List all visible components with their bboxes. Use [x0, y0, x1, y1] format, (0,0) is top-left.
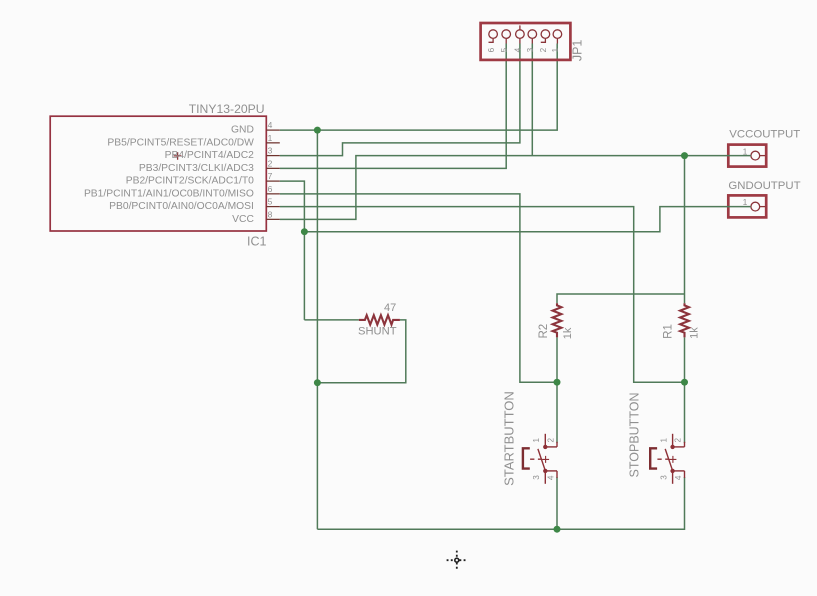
svg-text:5: 5 [500, 47, 509, 52]
svg-text:STOPBUTTON: STOPBUTTON [628, 393, 642, 478]
svg-text:GND: GND [231, 125, 254, 136]
junction shunt return on GND [314, 379, 321, 386]
connector VCCOUTPUT box [728, 145, 766, 167]
svg-text:SHUNT: SHUNT [358, 325, 397, 337]
svg-text:47: 47 [384, 302, 396, 314]
wire PB3 net: IC pin2 to JP1 pin5 [280, 44, 506, 169]
STOPBUTTON actuator [650, 448, 657, 468]
svg-text:R2: R2 [538, 324, 550, 339]
JP1 pin number labels [487, 47, 560, 52]
svg-text:4: 4 [674, 475, 683, 480]
wire PB1 net: IC pin6 to R2 bottom [280, 194, 557, 382]
svg-text:8: 8 [268, 209, 273, 219]
svg-text:IC1: IC1 [247, 235, 267, 249]
STARTBUTTON pin labels [532, 437, 556, 480]
svg-text:2: 2 [539, 47, 548, 52]
STOPBUTTON linkage dashes [657, 458, 669, 460]
VCCOUTPUT pin stub [760, 155, 766, 157]
JP1 origin tick [519, 25, 521, 29]
svg-text:2: 2 [268, 158, 273, 168]
STOPBUTTON bottom bar pins 3-4 [673, 470, 685, 472]
wire PB2 branch to GNDOUTPUT [304, 207, 727, 232]
wire GND bottom rail [317, 477, 684, 529]
STARTBUTTON pin 1 stub [544, 434, 546, 447]
STARTBUTTON actuator [523, 448, 530, 468]
STARTBUTTON bottom bar pins 3-4 [545, 470, 557, 472]
junction VCC at VCCOUTPUT [681, 152, 688, 159]
connector JP1 box [481, 23, 571, 60]
svg-text:1: 1 [743, 197, 748, 207]
IC1 origin cross [174, 152, 182, 160]
svg-text:6: 6 [268, 184, 273, 194]
resistor R1 body [680, 303, 689, 337]
STOPBUTTON lever [665, 449, 672, 471]
svg-text:4: 4 [514, 47, 523, 52]
IC1 pin names [84, 125, 255, 225]
STARTBUTTON pin 4 stub [556, 471, 558, 478]
wire STARTBUTTON bottom to rail [556, 477, 558, 529]
wire GND row: IC pin4 to JP1 pin1 column [280, 44, 557, 131]
wire PB0 net: IC pin5 to R1 bottom [280, 207, 685, 383]
STOPBUTTON pin labels [659, 437, 683, 480]
svg-text:7: 7 [268, 171, 273, 181]
wire JP1 pin3 drop to VCC [531, 44, 533, 156]
wire shunt right return to GND [317, 320, 405, 383]
JP1 pin circles [489, 30, 562, 39]
GNDOUTPUT pin circle [751, 202, 760, 211]
svg-text:6: 6 [487, 47, 496, 52]
svg-text:PB0/PCINT0/AIN0/OC0A/MOSI: PB0/PCINT0/AIN0/OC0A/MOSI [109, 201, 254, 212]
IC1 pin numbers [268, 120, 273, 219]
STARTBUTTON lever [538, 449, 545, 471]
svg-text:3: 3 [532, 475, 541, 480]
resistor SHUNT body [359, 315, 400, 324]
svg-text:GNDOUTPUT: GNDOUTPUT [728, 180, 800, 192]
svg-text:1: 1 [659, 437, 668, 442]
svg-text:VCC: VCC [232, 214, 254, 225]
GNDOUTPUT pin stub [760, 206, 766, 208]
junction R2 bottom [554, 379, 561, 386]
svg-text:2: 2 [546, 437, 555, 442]
svg-text:PB4/PCINT4/ADC2: PB4/PCINT4/ADC2 [165, 150, 255, 161]
svg-text:PB3/PCINT3/CLKI/ADC3: PB3/PCINT3/CLKI/ADC3 [139, 163, 254, 174]
STARTBUTTON pin 3 stub [544, 471, 546, 484]
svg-text:1: 1 [268, 133, 273, 143]
VCCOUTPUT pin circle [751, 151, 760, 160]
svg-text:JP1: JP1 [571, 40, 585, 62]
wire VCC net: IC pin8 to VCCOUTPUT [280, 156, 727, 220]
wire shunt left lead [304, 319, 359, 321]
svg-text:4: 4 [547, 475, 556, 480]
STARTBUTTON pin 2 stub [556, 442, 558, 447]
svg-text:4: 4 [268, 120, 273, 130]
resistor R2 body [553, 303, 562, 337]
STARTBUTTON top bar pins 1-2 [545, 446, 557, 448]
junction GND at IC pin4 [314, 127, 321, 134]
junction STARTBUTTON at rail [554, 526, 561, 533]
svg-text:5: 5 [268, 197, 273, 207]
svg-text:2: 2 [674, 437, 683, 442]
wire R2 bottom to STARTBUTTON [556, 337, 558, 443]
svg-text:1: 1 [532, 437, 541, 442]
STOPBUTTON contact dots [670, 445, 674, 449]
STOPBUTTON pin 2 stub [684, 442, 686, 447]
svg-text:3: 3 [526, 47, 535, 52]
cursor crosshair [447, 551, 467, 571]
IC1 pin stubs [266, 130, 280, 219]
svg-text:1: 1 [551, 47, 560, 52]
svg-text:1k: 1k [562, 327, 574, 339]
STOPBUTTON top bar pins 1-2 [673, 446, 685, 448]
JP1 pin stubs [489, 25, 558, 43]
wire GND vertical branch [316, 130, 318, 529]
wire VCC column down to R1 top [684, 156, 686, 304]
IC IC1 TINY13-20PU box [50, 116, 266, 231]
svg-text:3: 3 [268, 146, 273, 156]
STARTBUTTON linkage dashes [530, 458, 542, 460]
STOPBUTTON origin cross [669, 456, 676, 463]
STOPBUTTON pin 3 stub [672, 471, 674, 484]
svg-text:3: 3 [660, 475, 669, 480]
svg-text:STARTBUTTON: STARTBUTTON [501, 391, 516, 486]
STARTBUTTON origin cross [542, 456, 549, 463]
STARTBUTTON contact dots [543, 445, 547, 449]
GNDOUTPUT wire inside box [727, 206, 751, 208]
wire PB4 net: IC pin3 to JP1 pin4 [280, 44, 520, 156]
wire R2 top to VCC column [557, 294, 685, 303]
STOPBUTTON pin 1 stub [672, 434, 674, 447]
svg-text:1k: 1k [688, 327, 700, 339]
junction R1 bottom [681, 379, 688, 386]
svg-text:PB5/PCINT5/RESET/ADC0/DW: PB5/PCINT5/RESET/ADC0/DW [107, 137, 254, 148]
VCCOUTPUT wire inside box [727, 155, 751, 157]
svg-text:PB1/PCINT1/AIN1/OC0B/INT0/MISO: PB1/PCINT1/AIN1/OC0B/INT0/MISO [84, 188, 254, 199]
svg-text:R1: R1 [663, 324, 675, 339]
wire PB2 net: IC pin7 down to shunt top [280, 181, 305, 320]
junction PB2 branch [301, 228, 308, 235]
svg-text:TINY13-20PU: TINY13-20PU [189, 102, 265, 116]
connector GNDOUTPUT box [728, 195, 766, 217]
svg-text:1: 1 [743, 146, 748, 156]
wire R1 bottom to STOPBUTTON [684, 337, 686, 443]
svg-text:PB2/PCINT2/SCK/ADC1/T0: PB2/PCINT2/SCK/ADC1/T0 [126, 176, 254, 187]
STOPBUTTON pin 4 stub [684, 471, 686, 478]
svg-text:VCCOUTPUT: VCCOUTPUT [729, 129, 800, 141]
